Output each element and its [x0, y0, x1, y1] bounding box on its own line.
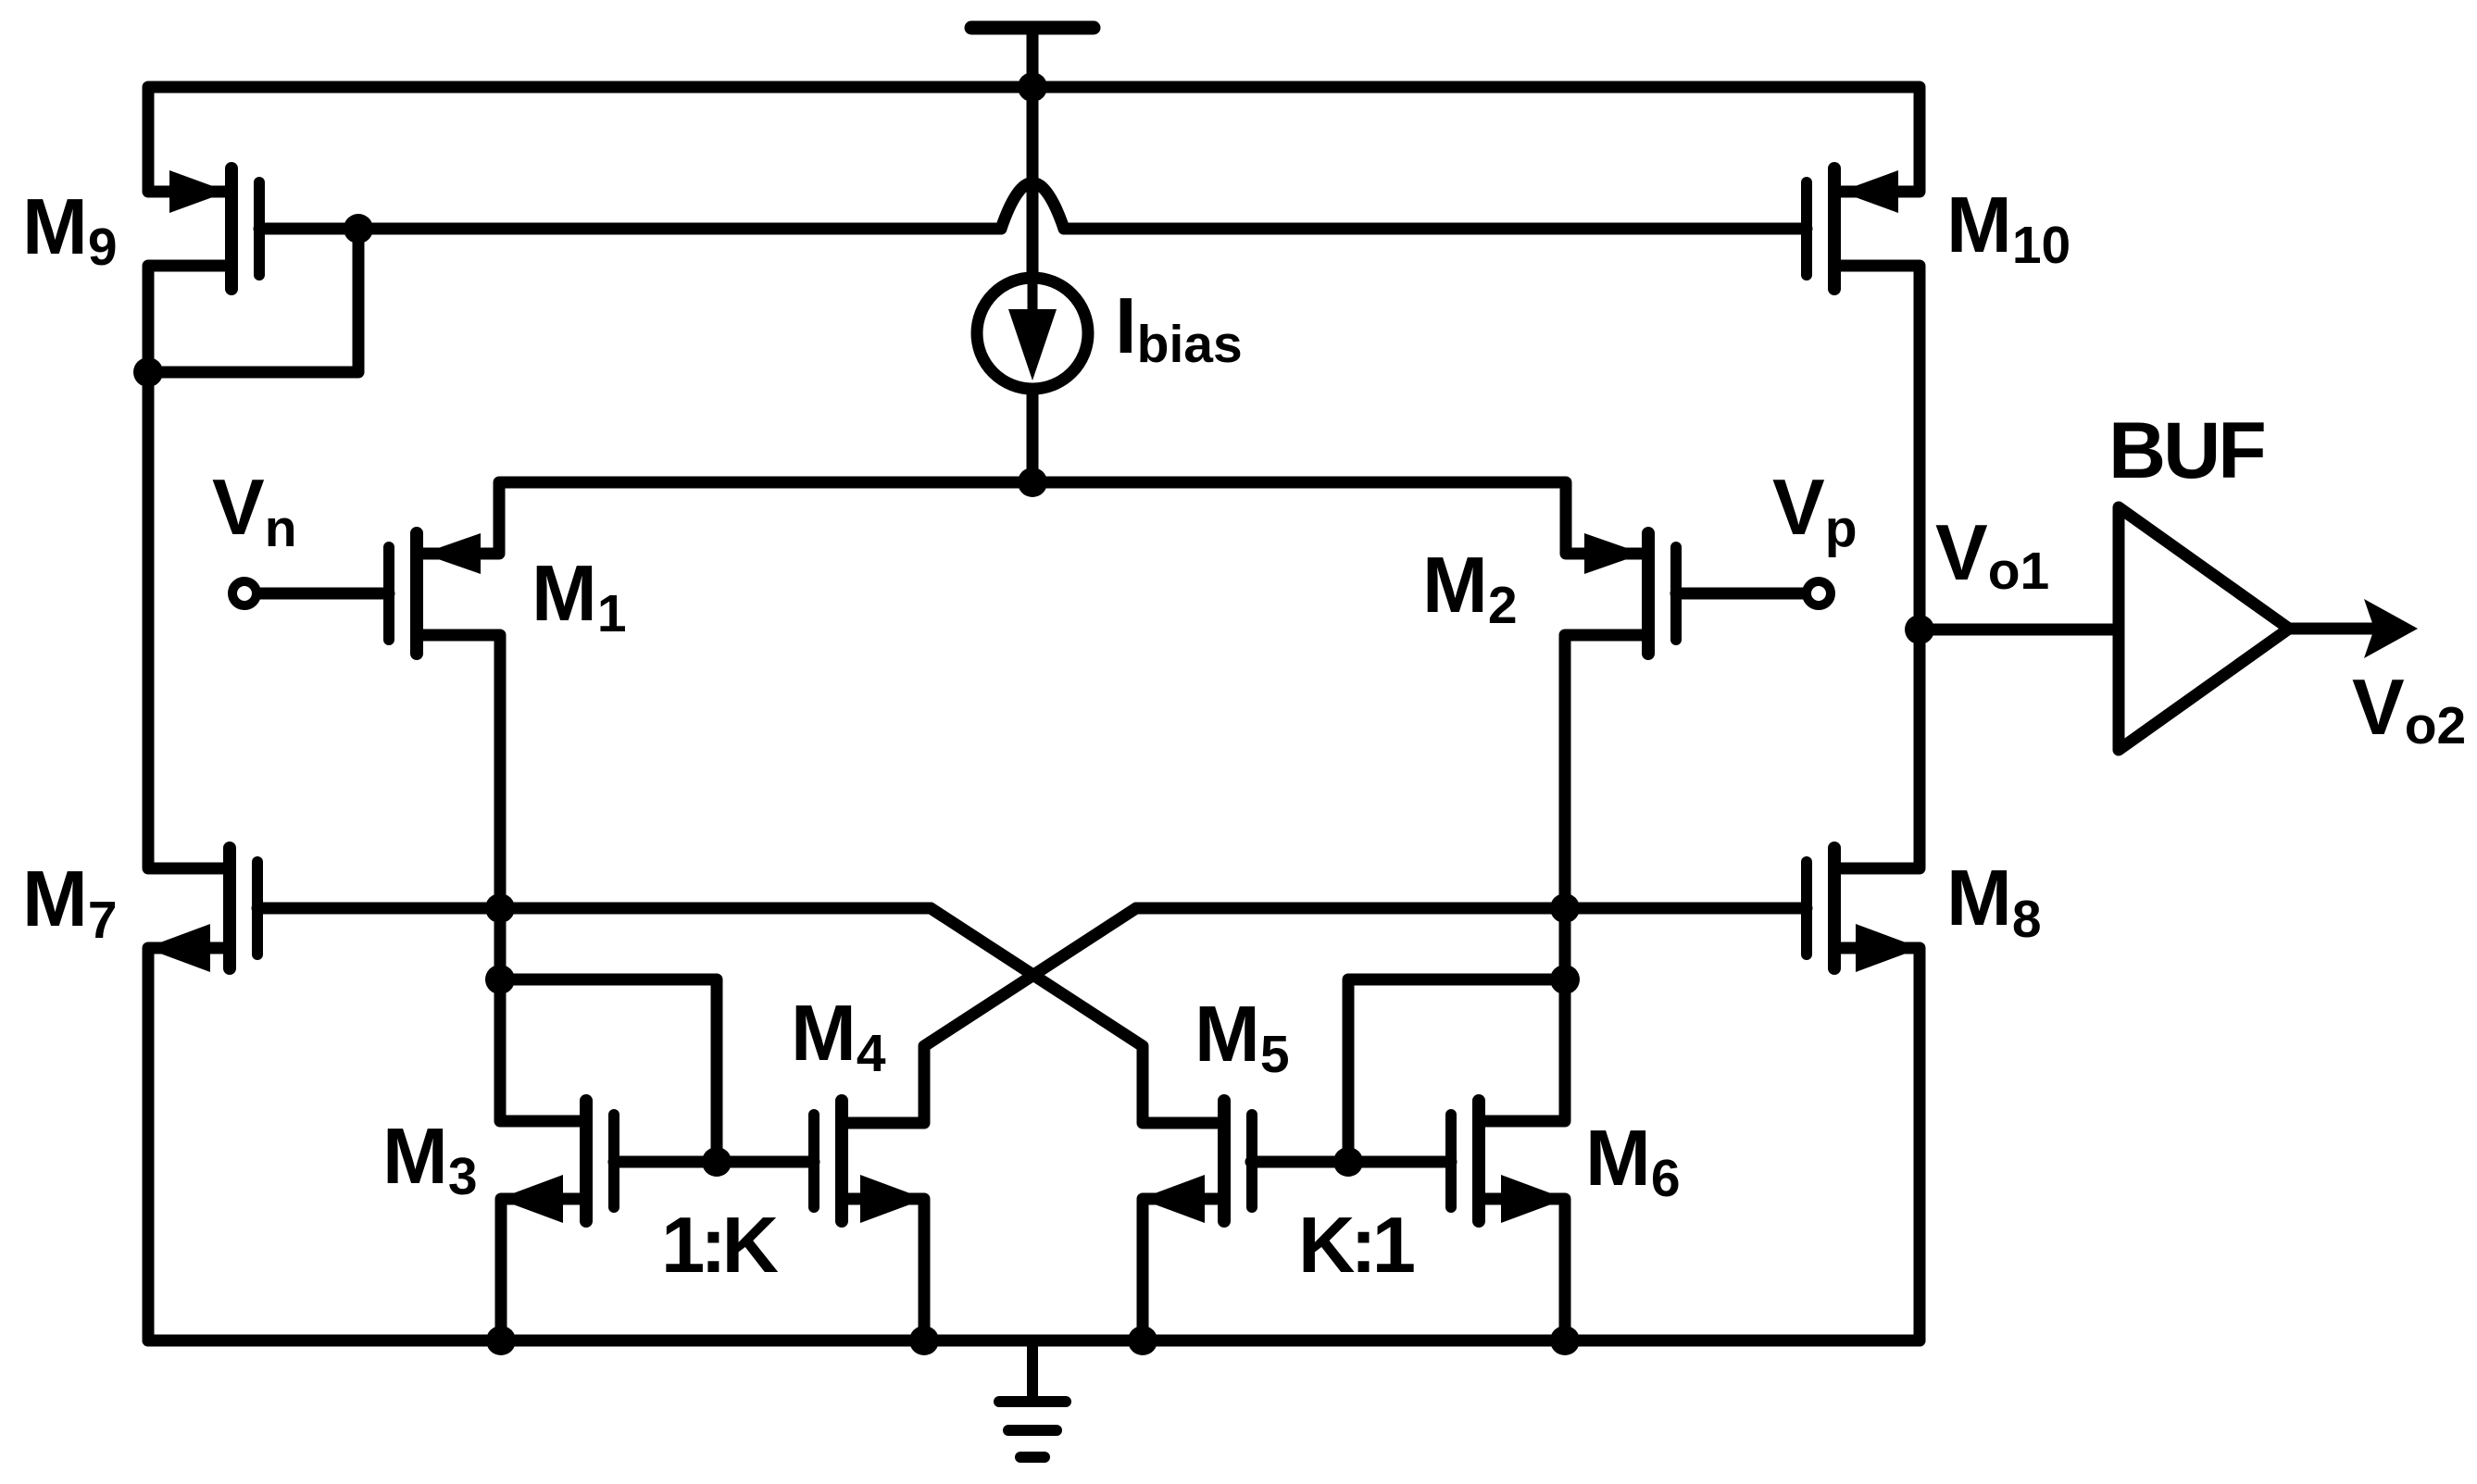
node A gate junction: [485, 893, 515, 923]
node M3-M4 gate junction: [702, 1147, 732, 1177]
node M3 source junction: [486, 1326, 516, 1355]
terminal Vn input: [232, 581, 256, 605]
transistor M5: [1140, 1101, 1252, 1341]
node M4 source junction: [909, 1326, 939, 1355]
node B gate junction: [1550, 893, 1580, 923]
svg-text:1:K: 1:K: [661, 1202, 779, 1290]
transistor M6: [1451, 1101, 1566, 1341]
wire M10 drain to M8 drain (Vo1 column): [1840, 266, 1920, 868]
wire M9 drain to M7 drain: [148, 266, 226, 868]
wire VDD top rail: [148, 87, 1920, 192]
terminal Vp input: [1807, 581, 1831, 605]
node M5-M6 gate junction: [1333, 1147, 1363, 1177]
node M6 source junction: [1550, 1326, 1580, 1355]
current source Ibias: [977, 87, 1088, 482]
node VDD rail junction: [1018, 72, 1047, 102]
svg-text:BUF: BUF: [2108, 406, 2264, 495]
transistor M10: [1807, 168, 1898, 289]
node B tie junction: [1550, 965, 1580, 994]
ground symbol: [999, 1341, 1066, 1457]
wire M3-M4 gate wire: [614, 1156, 814, 1168]
wire cross-coupling node A to M5 drain: [931, 908, 1219, 1123]
node tail junction: [1018, 468, 1047, 497]
wire M2 drain column (node B): [1484, 635, 1643, 1121]
wire differential pair tail rail: [422, 482, 1643, 554]
transistor M4: [814, 1101, 925, 1341]
wire M1 drain column (node A): [422, 635, 581, 1121]
buffer BUF: [2119, 507, 2289, 750]
wire M9 gate-drain tie: [148, 229, 358, 372]
wire node B tie to M5/M6 gates: [1348, 979, 1565, 1162]
transistor M2: [1584, 533, 1803, 654]
node Vo1 junction: [1905, 615, 1934, 644]
wire cross-coupling M4 drain to node B: [847, 908, 1136, 1123]
transistor M7: [145, 848, 257, 1341]
wire Vo1 to buffer: [1920, 624, 2119, 636]
transistor M8: [1807, 848, 1920, 1341]
wire buffer output Vo2: [2289, 599, 2418, 658]
node M9 drain junction: [133, 357, 163, 387]
node M9 gate junction: [344, 214, 373, 243]
wire M9-M10 gate wire with hop: [358, 183, 1807, 230]
wire node A tie to M3/M4 gates: [500, 979, 717, 1162]
transistor M1: [260, 533, 481, 654]
wire ground rail: [148, 1335, 1920, 1347]
transistor M3: [498, 1101, 614, 1341]
node M5 source junction: [1128, 1326, 1157, 1355]
svg-text:K:1: K:1: [1298, 1202, 1414, 1290]
wire M8 gate wire: [1136, 903, 1807, 915]
wire M5-M6 gate wire: [1251, 1156, 1451, 1168]
node A tie junction: [485, 965, 515, 994]
transistor M9: [169, 168, 358, 289]
VDD supply symbol: [971, 28, 1094, 87]
wire M7 gate wire: [257, 903, 931, 915]
